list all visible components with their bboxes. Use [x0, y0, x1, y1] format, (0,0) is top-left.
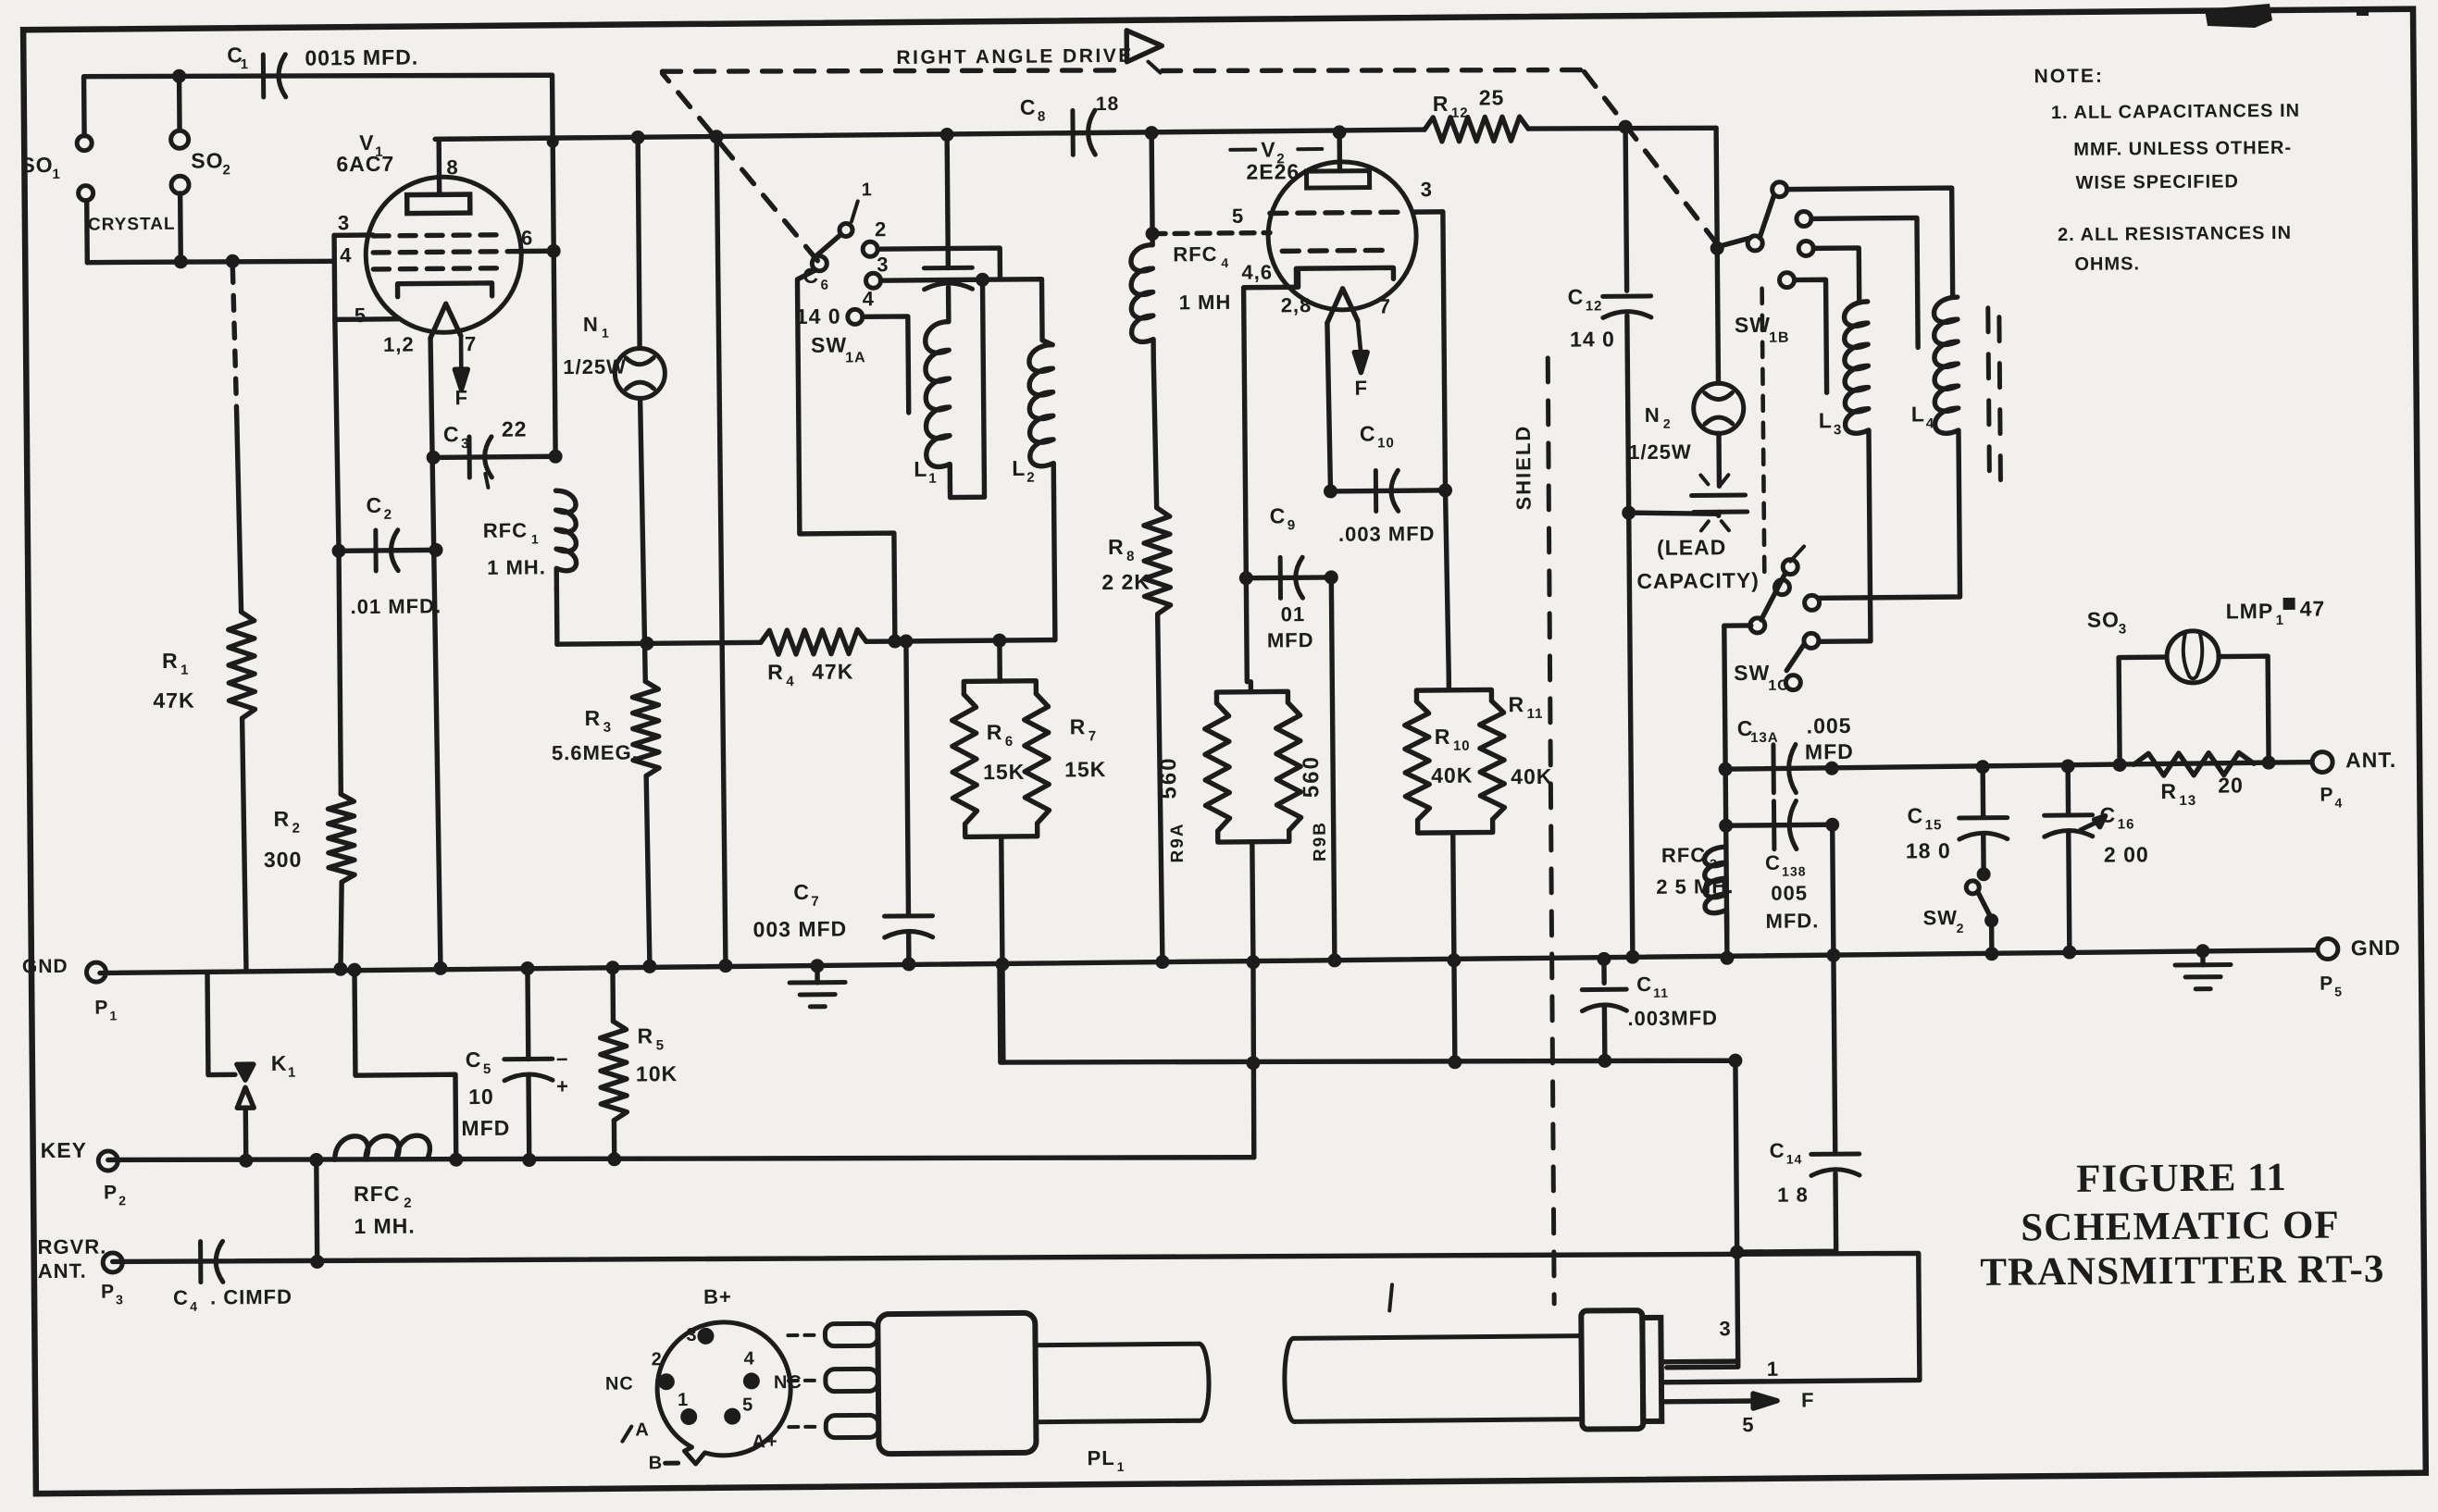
svg-text:. CIMFD: . CIMFD: [210, 1285, 292, 1309]
svg-text:15K: 15K: [1064, 757, 1106, 781]
svg-text:SW: SW: [811, 332, 847, 356]
svg-text:1/25W: 1/25W: [563, 355, 627, 379]
svg-text:40K: 40K: [1431, 763, 1473, 787]
svg-text:10K: 10K: [636, 1061, 678, 1085]
svg-text:1 MH.: 1 MH.: [487, 555, 546, 579]
svg-text:MFD: MFD: [1805, 739, 1854, 763]
svg-text:R: R: [585, 706, 602, 730]
svg-text:ANT.: ANT.: [38, 1259, 87, 1283]
svg-text:2: 2: [652, 1349, 663, 1369]
svg-text:3: 3: [1834, 422, 1842, 438]
svg-text:C: C: [1360, 422, 1376, 446]
svg-text:2: 2: [1957, 921, 1965, 936]
svg-text:SW: SW: [1735, 313, 1771, 337]
svg-text:6: 6: [1005, 734, 1014, 750]
svg-text:C: C: [1270, 503, 1287, 527]
svg-text:1: 1: [2276, 613, 2284, 628]
svg-text:1: 1: [180, 663, 189, 678]
svg-text:2 00: 2 00: [2104, 842, 2149, 866]
svg-text:C: C: [443, 422, 460, 446]
svg-text:V: V: [1261, 137, 1276, 161]
svg-text:01: 01: [1281, 602, 1306, 626]
svg-text:GND: GND: [22, 956, 68, 977]
svg-text:OHMS.: OHMS.: [2074, 254, 2140, 275]
svg-text:7: 7: [1379, 294, 1391, 317]
svg-text:A: A: [635, 1419, 650, 1440]
svg-text:2: 2: [384, 507, 392, 523]
svg-text:1. ALL CAPACITANCES IN: 1. ALL CAPACITANCES IN: [2051, 101, 2300, 123]
svg-text:P: P: [2320, 973, 2333, 995]
svg-text:7: 7: [465, 332, 477, 355]
svg-text:3: 3: [338, 211, 350, 234]
svg-text:2: 2: [292, 821, 301, 837]
svg-text:4,6: 4,6: [1241, 260, 1273, 283]
svg-text:R: R: [987, 720, 1003, 744]
svg-text:RFC: RFC: [483, 519, 528, 542]
svg-text:1: 1: [288, 1065, 296, 1081]
svg-text:47: 47: [2300, 597, 2326, 621]
svg-text:5: 5: [1742, 1413, 1754, 1436]
svg-text:L: L: [1012, 456, 1026, 480]
svg-text:1: 1: [109, 1008, 118, 1022]
svg-text:4: 4: [863, 287, 875, 310]
svg-text:CRYSTAL: CRYSTAL: [88, 215, 176, 235]
svg-text:C: C: [2099, 803, 2116, 827]
svg-text:RFC: RFC: [1661, 843, 1706, 866]
svg-text:14 0: 14 0: [796, 304, 841, 328]
svg-text:R9B: R9B: [1311, 821, 1330, 861]
svg-text:C: C: [793, 880, 810, 904]
svg-text:3: 3: [1421, 178, 1433, 201]
svg-text:L: L: [914, 457, 927, 481]
svg-text:NC: NC: [605, 1374, 634, 1394]
svg-text:8: 8: [1126, 549, 1135, 564]
svg-text:11: 11: [1653, 985, 1669, 1000]
svg-text:L: L: [1911, 402, 1925, 426]
svg-text:4: 4: [786, 674, 794, 689]
svg-text:16: 16: [2118, 816, 2135, 832]
svg-text:C: C: [1020, 95, 1037, 119]
svg-text:R: R: [162, 649, 179, 673]
svg-text:R: R: [1108, 535, 1125, 559]
svg-text:3: 3: [461, 436, 469, 452]
svg-text:18: 18: [1096, 93, 1120, 115]
svg-text:4: 4: [340, 243, 352, 266]
svg-text:R: R: [2160, 779, 2177, 803]
svg-text:6: 6: [820, 278, 828, 293]
svg-text:C: C: [1636, 973, 1652, 996]
svg-text:3: 3: [1719, 1317, 1731, 1340]
svg-text:5: 5: [2334, 984, 2343, 998]
svg-text:KEY: KEY: [41, 1138, 88, 1162]
svg-text:NOTE:: NOTE:: [2034, 66, 2105, 88]
svg-text:SO: SO: [20, 153, 53, 177]
svg-text:1 MH.: 1 MH.: [354, 1214, 416, 1239]
svg-text:P: P: [101, 1281, 115, 1302]
svg-text:1: 1: [1117, 1459, 1126, 1474]
svg-text:1: 1: [602, 326, 610, 341]
svg-text:C: C: [466, 1047, 482, 1072]
svg-text:3: 3: [1710, 856, 1718, 871]
svg-text:F: F: [1801, 1388, 1815, 1411]
svg-text:FIGURE 11: FIGURE 11: [2076, 1156, 2287, 1201]
svg-text:13A: 13A: [1750, 730, 1779, 746]
svg-text:2 2K: 2 2K: [1101, 570, 1151, 594]
svg-text:MFD.: MFD.: [1765, 909, 1819, 933]
svg-text:2 5 MH.: 2 5 MH.: [1656, 874, 1734, 899]
svg-text:1,2: 1,2: [383, 333, 415, 356]
svg-text:3: 3: [877, 253, 889, 276]
svg-text:1 MH: 1 MH: [1179, 291, 1232, 314]
svg-text:RFC: RFC: [1173, 242, 1217, 266]
svg-text:3: 3: [686, 1325, 697, 1345]
svg-text:A+: A+: [752, 1431, 777, 1452]
svg-text:MFD: MFD: [1267, 628, 1314, 651]
svg-text:ANT.: ANT.: [2345, 748, 2396, 772]
svg-text:3: 3: [116, 1292, 124, 1307]
svg-text:.01 MFD.: .01 MFD.: [350, 594, 442, 618]
svg-text:6: 6: [521, 226, 533, 249]
svg-text:R9A: R9A: [1168, 822, 1188, 862]
svg-text:2: 2: [1663, 416, 1672, 431]
svg-text:22: 22: [502, 417, 528, 441]
svg-text:SO: SO: [2087, 608, 2120, 632]
svg-text:(LEAD: (LEAD: [1657, 535, 1727, 560]
svg-text:3: 3: [2119, 621, 2127, 637]
svg-text:R: R: [1433, 92, 1449, 116]
svg-text:10: 10: [468, 1084, 494, 1109]
svg-text:C: C: [366, 493, 382, 517]
svg-text:14: 14: [1786, 1152, 1803, 1167]
svg-text:NC: NC: [774, 1372, 802, 1393]
svg-text:47K: 47K: [812, 659, 853, 683]
svg-text:14 0: 14 0: [1570, 327, 1615, 351]
svg-text:SCHEMATIC OF: SCHEMATIC OF: [2021, 1203, 2340, 1249]
svg-text:560: 560: [1299, 755, 1324, 798]
svg-text:4: 4: [744, 1348, 755, 1369]
svg-text:13: 13: [2179, 793, 2196, 809]
svg-text:C: C: [1907, 803, 1923, 827]
svg-text:MFD: MFD: [461, 1116, 510, 1140]
svg-text:C: C: [1765, 851, 1781, 874]
svg-text:PL: PL: [1088, 1446, 1115, 1469]
svg-text:.003MFD: .003MFD: [1627, 1006, 1718, 1030]
svg-text:F: F: [1354, 377, 1368, 400]
svg-text:005: 005: [1771, 881, 1808, 904]
svg-text:C: C: [1770, 1139, 1785, 1162]
svg-text:C: C: [1568, 285, 1585, 309]
svg-text:2,8: 2,8: [1281, 293, 1312, 316]
svg-text:R: R: [1070, 714, 1087, 738]
svg-text:TRANSMITTER RT-3: TRANSMITTER RT-3: [1980, 1247, 2384, 1295]
svg-text:138: 138: [1782, 863, 1806, 878]
svg-text:R: R: [273, 807, 290, 831]
svg-text:1B: 1B: [1769, 330, 1790, 346]
svg-text:R: R: [767, 660, 784, 684]
svg-text:B: B: [649, 1453, 664, 1473]
svg-text:1: 1: [1767, 1357, 1779, 1381]
svg-text:1: 1: [531, 531, 540, 546]
svg-text:2: 2: [118, 1193, 127, 1208]
svg-text:8: 8: [446, 155, 458, 179]
svg-text:0015 MFD.: 0015 MFD.: [305, 45, 418, 70]
svg-text:8: 8: [1038, 109, 1046, 125]
svg-text:1: 1: [862, 180, 873, 200]
svg-text:1C: 1C: [1768, 678, 1789, 694]
svg-text:K: K: [271, 1051, 288, 1075]
svg-text:5: 5: [355, 304, 367, 327]
svg-text:F: F: [454, 386, 468, 409]
svg-text:12: 12: [1586, 298, 1603, 314]
svg-text:1: 1: [52, 167, 60, 182]
svg-text:MMF. UNLESS OTHER-: MMF. UNLESS OTHER-: [2073, 138, 2292, 160]
svg-text:1 8: 1 8: [1777, 1183, 1809, 1206]
svg-text:003 MFD: 003 MFD: [753, 917, 848, 942]
svg-text:WISE SPECIFIED: WISE SPECIFIED: [2076, 171, 2239, 193]
svg-text:L: L: [1819, 408, 1833, 432]
svg-text:R: R: [1435, 725, 1451, 749]
svg-text:10: 10: [1377, 435, 1395, 451]
svg-text:2: 2: [1026, 470, 1035, 486]
svg-text:5: 5: [483, 1061, 491, 1077]
svg-text:1: 1: [928, 471, 937, 487]
svg-text:C: C: [173, 1286, 189, 1309]
svg-text:5.6MEG.: 5.6MEG.: [552, 740, 639, 764]
svg-text:2: 2: [404, 1196, 412, 1211]
svg-text:P: P: [104, 1182, 118, 1203]
svg-text:1A: 1A: [845, 350, 866, 366]
svg-text:1: 1: [241, 56, 249, 72]
svg-text:RIGHT ANGLE DRIVE: RIGHT ANGLE DRIVE: [896, 45, 1134, 68]
svg-text:10: 10: [1453, 738, 1471, 754]
svg-text:SW: SW: [1922, 906, 1958, 929]
svg-text:2: 2: [222, 162, 230, 178]
svg-text:1: 1: [678, 1390, 689, 1410]
svg-text:+: +: [556, 1074, 569, 1097]
svg-text:SW: SW: [1734, 661, 1770, 685]
svg-text:5: 5: [1232, 204, 1244, 228]
svg-text:R: R: [1508, 692, 1524, 716]
svg-text:SHIELD: SHIELD: [1511, 425, 1536, 511]
svg-text:SO: SO: [191, 148, 223, 172]
svg-text:560: 560: [1156, 756, 1181, 799]
svg-text:P: P: [2320, 784, 2333, 805]
svg-text:RFC: RFC: [354, 1182, 401, 1206]
svg-text:7: 7: [1088, 728, 1097, 744]
svg-text:5: 5: [742, 1394, 753, 1415]
svg-text:.005: .005: [1807, 713, 1852, 737]
svg-text:3: 3: [603, 720, 612, 736]
svg-text:GND: GND: [2351, 936, 2401, 960]
svg-text:15K: 15K: [983, 760, 1025, 784]
svg-text:4: 4: [2334, 795, 2343, 810]
svg-text:2: 2: [875, 217, 887, 241]
svg-text:N: N: [583, 313, 599, 336]
svg-text:9: 9: [1287, 517, 1296, 533]
svg-text:12: 12: [1451, 105, 1469, 121]
svg-text:2. ALL RESISTANCES IN: 2. ALL RESISTANCES IN: [2058, 223, 2292, 245]
svg-text:RGVR.: RGVR.: [37, 1235, 106, 1259]
svg-text:4: 4: [1221, 255, 1229, 270]
svg-text:5: 5: [656, 1037, 665, 1053]
svg-text:25: 25: [1479, 85, 1505, 109]
svg-text:R: R: [638, 1023, 654, 1047]
svg-text:CAPACITY): CAPACITY): [1636, 568, 1760, 593]
svg-text:−: −: [556, 1047, 569, 1071]
svg-text:4: 4: [1926, 415, 1934, 431]
svg-text:LMP: LMP: [2226, 599, 2274, 623]
svg-text:300: 300: [264, 848, 303, 872]
svg-text:18 0: 18 0: [1906, 838, 1951, 862]
svg-text:47K: 47K: [153, 688, 194, 713]
svg-text:15: 15: [1925, 817, 1943, 833]
svg-text:B+: B+: [703, 1285, 732, 1308]
svg-text:P: P: [94, 997, 108, 1018]
svg-text:40K: 40K: [1511, 764, 1552, 788]
svg-text:N: N: [1645, 403, 1661, 427]
svg-text:1/25W: 1/25W: [1628, 440, 1692, 465]
svg-text:4: 4: [190, 1299, 198, 1314]
svg-text:6AC7: 6AC7: [336, 152, 394, 177]
svg-text:7: 7: [811, 894, 819, 910]
svg-text:.003 MFD: .003 MFD: [1338, 522, 1436, 546]
svg-text:11: 11: [1527, 706, 1544, 722]
svg-text:20: 20: [2218, 773, 2244, 797]
svg-text:2E26: 2E26: [1246, 159, 1300, 184]
